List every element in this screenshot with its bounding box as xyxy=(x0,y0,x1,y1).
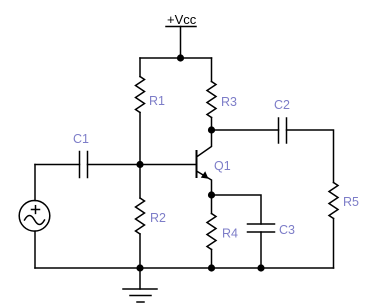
resistor R3 xyxy=(207,58,237,130)
wire source top xyxy=(34,165,36,201)
resistor R2 xyxy=(136,165,167,269)
node C3 bottom xyxy=(257,264,264,271)
node ground junction xyxy=(136,264,143,271)
capacitor C1 xyxy=(73,132,89,178)
capacitor C2 xyxy=(274,98,290,143)
svg-text:+Vcc: +Vcc xyxy=(167,12,197,27)
node R4 bottom xyxy=(208,264,215,271)
wire collector to C2 xyxy=(212,129,279,131)
svg-text:C3: C3 xyxy=(279,223,295,237)
resistor R1 xyxy=(136,58,166,165)
ground xyxy=(123,268,157,302)
svg-text:Q1: Q1 xyxy=(214,159,231,173)
wire C2 to R5 xyxy=(287,130,334,183)
svg-text:R3: R3 xyxy=(221,95,237,109)
wire top rail xyxy=(140,57,212,59)
node collector xyxy=(208,126,215,133)
power +Vcc xyxy=(166,12,197,58)
node emitter xyxy=(208,191,215,198)
transistor Q1 xyxy=(197,130,231,195)
capacitor C3 xyxy=(248,223,296,268)
svg-text:R5: R5 xyxy=(343,195,359,209)
resistor R5 xyxy=(329,183,359,269)
node base xyxy=(136,161,143,168)
node Vcc junction xyxy=(177,54,184,61)
resistor R4 xyxy=(207,195,238,268)
wire input left xyxy=(35,164,80,166)
svg-text:C1: C1 xyxy=(73,132,89,146)
svg-text:R1: R1 xyxy=(149,94,165,108)
wire bottom rail xyxy=(35,267,334,269)
svg-text:C2: C2 xyxy=(274,98,290,112)
wire source bottom xyxy=(34,231,36,268)
wire C1 to base node xyxy=(88,164,197,166)
svg-text:R2: R2 xyxy=(150,211,166,225)
source V1 xyxy=(19,201,50,232)
svg-text:R4: R4 xyxy=(222,227,238,241)
wire emitter to C3 branch xyxy=(212,195,262,224)
